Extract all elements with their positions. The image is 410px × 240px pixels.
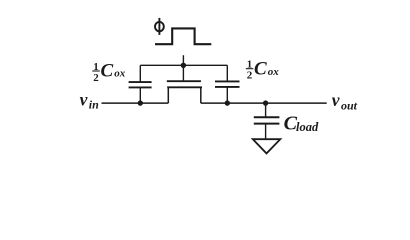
svg-text:2: 2 (93, 72, 99, 84)
wire gate stub up (182, 55, 184, 65)
label v_in (80, 90, 100, 112)
svg-text:2: 2 (247, 70, 253, 82)
svg-text:C: C (101, 60, 114, 81)
label C_load (284, 113, 319, 135)
capacitor right half-Cox (215, 65, 240, 103)
svg-text:out: out (341, 98, 358, 112)
node dot left cap (138, 100, 143, 105)
ground (253, 139, 280, 153)
node gate dot (181, 63, 186, 68)
svg-text:v: v (332, 90, 340, 110)
node dot load (263, 100, 268, 105)
clock pulse waveform (155, 28, 211, 44)
wire output (201, 102, 327, 104)
svg-text:load: load (296, 120, 319, 134)
label v_out (332, 90, 358, 112)
node dot right cap (225, 100, 230, 105)
svg-text:C: C (254, 58, 267, 79)
svg-text:v: v (80, 90, 88, 110)
svg-text:ox: ox (268, 66, 280, 78)
capacitor C_load (254, 103, 280, 139)
transistor M1 (167, 65, 202, 103)
wire gate rail (140, 64, 227, 66)
label half Cox left (92, 60, 126, 84)
wire input (102, 102, 169, 104)
svg-text:ox: ox (114, 68, 126, 80)
clock label phi (155, 18, 164, 35)
svg-text:in: in (89, 97, 99, 111)
label half Cox right (246, 58, 279, 81)
capacitor left half-Cox (129, 65, 152, 103)
